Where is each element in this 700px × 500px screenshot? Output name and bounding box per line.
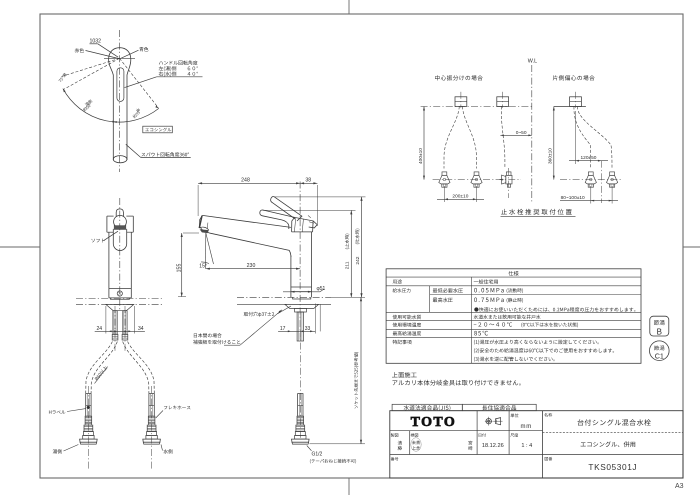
handle rotation arc <box>63 89 159 123</box>
svg-text:1 : 4: 1 : 4 <box>521 443 532 449</box>
counter line center split <box>421 106 532 108</box>
front view lever tip knob <box>116 209 123 217</box>
japanese room note <box>194 333 222 337</box>
svg-text:TOTO: TOTO <box>411 415 457 430</box>
side counter bottom line <box>237 303 287 305</box>
arc label hot lower <box>85 99 93 106</box>
hose dashed to cold valve <box>462 106 476 168</box>
right hose curve outer <box>128 342 155 394</box>
side view clamp under counter <box>285 304 319 308</box>
unit cell <box>511 413 519 417</box>
handle note underline and leader <box>157 76 203 78</box>
arc end arrow right <box>155 106 159 109</box>
dimension 0-50 <box>500 134 531 136</box>
spout rotation label leader <box>126 144 141 157</box>
svg-text:38: 38 <box>305 178 311 184</box>
svg-text:34: 34 <box>138 326 144 332</box>
number label <box>391 457 399 461</box>
valve cold <box>474 172 479 175</box>
front view step line <box>107 231 113 233</box>
dimension 360pm10 <box>553 107 555 180</box>
valve line eccentric <box>560 179 623 181</box>
socket dimension line <box>360 297 362 444</box>
dimension 242 line <box>361 197 363 297</box>
side hose centerline <box>299 330 301 440</box>
front view lever slot hatch <box>114 226 126 230</box>
spec table horizontal lines <box>386 276 641 278</box>
spec row special notes <box>393 340 412 344</box>
frame center tick bottom <box>348 478 350 495</box>
counter line top front <box>76 298 164 300</box>
plan view spout nose ellipse <box>113 156 127 163</box>
energy saving stamp B <box>650 316 669 336</box>
flexible hose label <box>164 406 190 410</box>
plan view lever slot <box>117 68 124 102</box>
arc label cold <box>135 108 140 113</box>
svg-text:80~100±10: 80~100±10 <box>561 195 585 201</box>
drafter stamp <box>398 441 402 445</box>
left hose body <box>86 394 91 417</box>
svg-text:G1/2: G1/2 <box>312 452 323 458</box>
svg-text:18.12.26: 18.12.26 <box>482 443 504 449</box>
eco single boxed label <box>143 126 173 133</box>
spec row supply pressure <box>393 288 411 292</box>
side view cap housing <box>292 217 314 232</box>
cold side dashed radius <box>120 58 159 108</box>
side counter top line <box>237 296 331 298</box>
svg-text:TKS05301J: TKS05301J <box>588 462 637 472</box>
H label text <box>49 410 65 414</box>
dimension 400pm10 <box>423 107 425 180</box>
checker stamps <box>412 441 420 445</box>
left hose curve inner <box>91 342 117 394</box>
front view knuckle circle <box>114 215 127 228</box>
one side eccentric case title <box>553 75 595 80</box>
plan view centerline vertical <box>119 30 121 172</box>
side view nut <box>295 308 307 312</box>
spec table vertical lines <box>429 286 431 313</box>
svg-text:33: 33 <box>305 326 311 332</box>
spray angle lines <box>205 233 207 269</box>
svg-text:A3: A3 <box>675 483 684 490</box>
svg-text:230: 230 <box>247 263 256 269</box>
svg-text:200±10: 200±10 <box>452 194 468 200</box>
faucet tail cold side view <box>497 97 509 107</box>
dimension 211 ext line <box>263 209 356 211</box>
hot side dashed radius upper <box>62 58 120 76</box>
valve centerline horizontal <box>433 179 521 181</box>
svg-text:W.L: W.L <box>528 59 537 65</box>
valve side centerline vertical <box>508 168 510 198</box>
arc label hot upper <box>62 73 67 78</box>
side view aerator dome <box>199 227 209 230</box>
front view shank right <box>123 311 127 335</box>
plan view centerline horizontal <box>104 57 135 59</box>
drafting labels <box>391 433 399 437</box>
handle rotation angle note <box>159 60 198 65</box>
drawing number label <box>545 457 553 461</box>
front view body sides <box>108 232 110 288</box>
front view head block sides <box>106 216 108 232</box>
front view body joint line <box>109 288 131 290</box>
faucet tail eccentric <box>570 97 582 107</box>
front view base plate <box>110 298 129 299</box>
svg-text:211: 211 <box>345 261 351 269</box>
hose dashed side view <box>501 106 505 168</box>
svg-text:400±10: 400±10 <box>418 148 424 164</box>
side view threaded shank <box>297 312 303 341</box>
svg-text:0~50: 0~50 <box>516 130 527 136</box>
midline between valves <box>600 161 602 203</box>
socket dimension label <box>354 352 358 408</box>
spout rotation label <box>141 152 188 156</box>
hose dashed eccentric-1 <box>574 106 591 168</box>
center split case title <box>435 75 483 80</box>
hose dashed eccentric-2 <box>577 106 612 168</box>
left hose curve outer <box>86 342 113 394</box>
front view bottom band <box>108 289 110 298</box>
svg-text:15°: 15° <box>199 263 207 269</box>
spec row water quality <box>393 315 421 319</box>
phi51 dimension <box>283 291 320 293</box>
side view aerator underside <box>200 229 209 233</box>
svg-text:248: 248 <box>241 178 250 184</box>
soft label <box>91 239 104 243</box>
side view lever raised <box>271 196 296 219</box>
faucet tail hot <box>455 97 467 107</box>
valve eccentric cold <box>610 172 615 175</box>
dimension 211 line <box>350 210 352 297</box>
front view shank centerlines <box>114 306 116 352</box>
frame center tick top <box>348 0 350 14</box>
frame center tick left <box>0 246 40 248</box>
side view column left edge <box>290 256 292 288</box>
side view lever closed <box>260 210 289 229</box>
side view column right edge <box>311 232 313 287</box>
spec table title <box>508 271 518 276</box>
wall line <box>531 65 533 203</box>
svg-text:φ51: φ51 <box>317 286 326 292</box>
title block lines <box>390 430 543 432</box>
spec table outer box <box>386 269 641 364</box>
svg-text:155: 155 <box>176 264 182 273</box>
label 1032 leader <box>90 43 98 45</box>
right hose body <box>149 394 154 417</box>
svg-text:242: 242 <box>355 256 361 264</box>
dimension 80-100pm10 <box>590 186 592 204</box>
hot side dashed radius lower <box>64 58 120 89</box>
R60 note <box>94 365 107 381</box>
svg-text:120±50: 120±50 <box>581 155 597 161</box>
H label dot <box>87 406 90 409</box>
counter line bottom front <box>76 303 164 305</box>
hose dashed to hot valve <box>444 106 459 168</box>
frame center tick right <box>683 246 700 248</box>
side view spout bottom edge <box>201 227 291 257</box>
side view spout top edge <box>202 215 291 227</box>
side hose body <box>298 394 303 417</box>
label blue color <box>139 47 148 51</box>
side view base flange <box>293 297 311 299</box>
extension line lever tail <box>316 185 318 226</box>
svg-text:1032: 1032 <box>90 39 102 45</box>
arc end arrow left <box>63 89 66 93</box>
svg-text:360±10: 360±10 <box>548 148 554 164</box>
spec row max pressure <box>433 298 453 303</box>
extension line spout tip <box>197 185 199 216</box>
valve hot <box>442 172 447 175</box>
name label <box>544 413 552 417</box>
spec row max hot water temperature <box>393 331 421 335</box>
recommended stop valve position title <box>501 209 572 215</box>
spec row usage <box>393 279 402 283</box>
side view column top line <box>292 231 313 233</box>
label red color <box>75 48 84 52</box>
svg-text:mm: mm <box>520 424 532 430</box>
top mount installation note <box>392 372 417 378</box>
side view lever tail wedge <box>309 221 318 228</box>
front view clamp wings <box>106 304 134 310</box>
front view shank nuts <box>112 334 118 340</box>
spec row ambient temperature <box>393 323 422 327</box>
front view spout nose U shape <box>113 229 126 251</box>
dimension 155 line <box>181 233 183 297</box>
side view cap detail lines <box>294 218 295 232</box>
front view centerline <box>119 198 121 311</box>
svg-text:B: B <box>657 327 662 336</box>
right hose curve inner <box>123 342 149 394</box>
certification strip JIS <box>392 404 462 410</box>
side view column lower band <box>290 287 292 297</box>
energy saving stamp C1 <box>650 341 670 361</box>
valve eccentric hot <box>588 172 593 175</box>
svg-text:C1: C1 <box>655 352 664 361</box>
counter line eccentric <box>554 106 586 108</box>
front view shank left <box>113 311 117 335</box>
valve side view near wall <box>506 172 511 175</box>
front view set screw <box>117 291 122 296</box>
dimension 242 ext line <box>275 196 366 198</box>
hot side label <box>53 449 62 453</box>
side view centerline <box>299 182 301 341</box>
mounting hole label <box>244 312 274 317</box>
cold side label <box>163 449 172 453</box>
dimension 120pm50 <box>575 111 577 164</box>
front view head top line <box>107 215 114 217</box>
title block outer <box>390 411 683 478</box>
certification strip choju <box>462 404 536 410</box>
third angle projection symbol <box>486 419 491 424</box>
product name <box>577 419 650 425</box>
dimension 200pm10 <box>443 186 445 202</box>
product subname <box>581 441 636 447</box>
arc center split arrows <box>113 121 117 123</box>
plan view handle pear outline <box>109 48 131 160</box>
dimension 230 line <box>206 268 300 270</box>
dimension 248 38 line <box>198 182 317 184</box>
side view spout nose face <box>199 216 202 228</box>
